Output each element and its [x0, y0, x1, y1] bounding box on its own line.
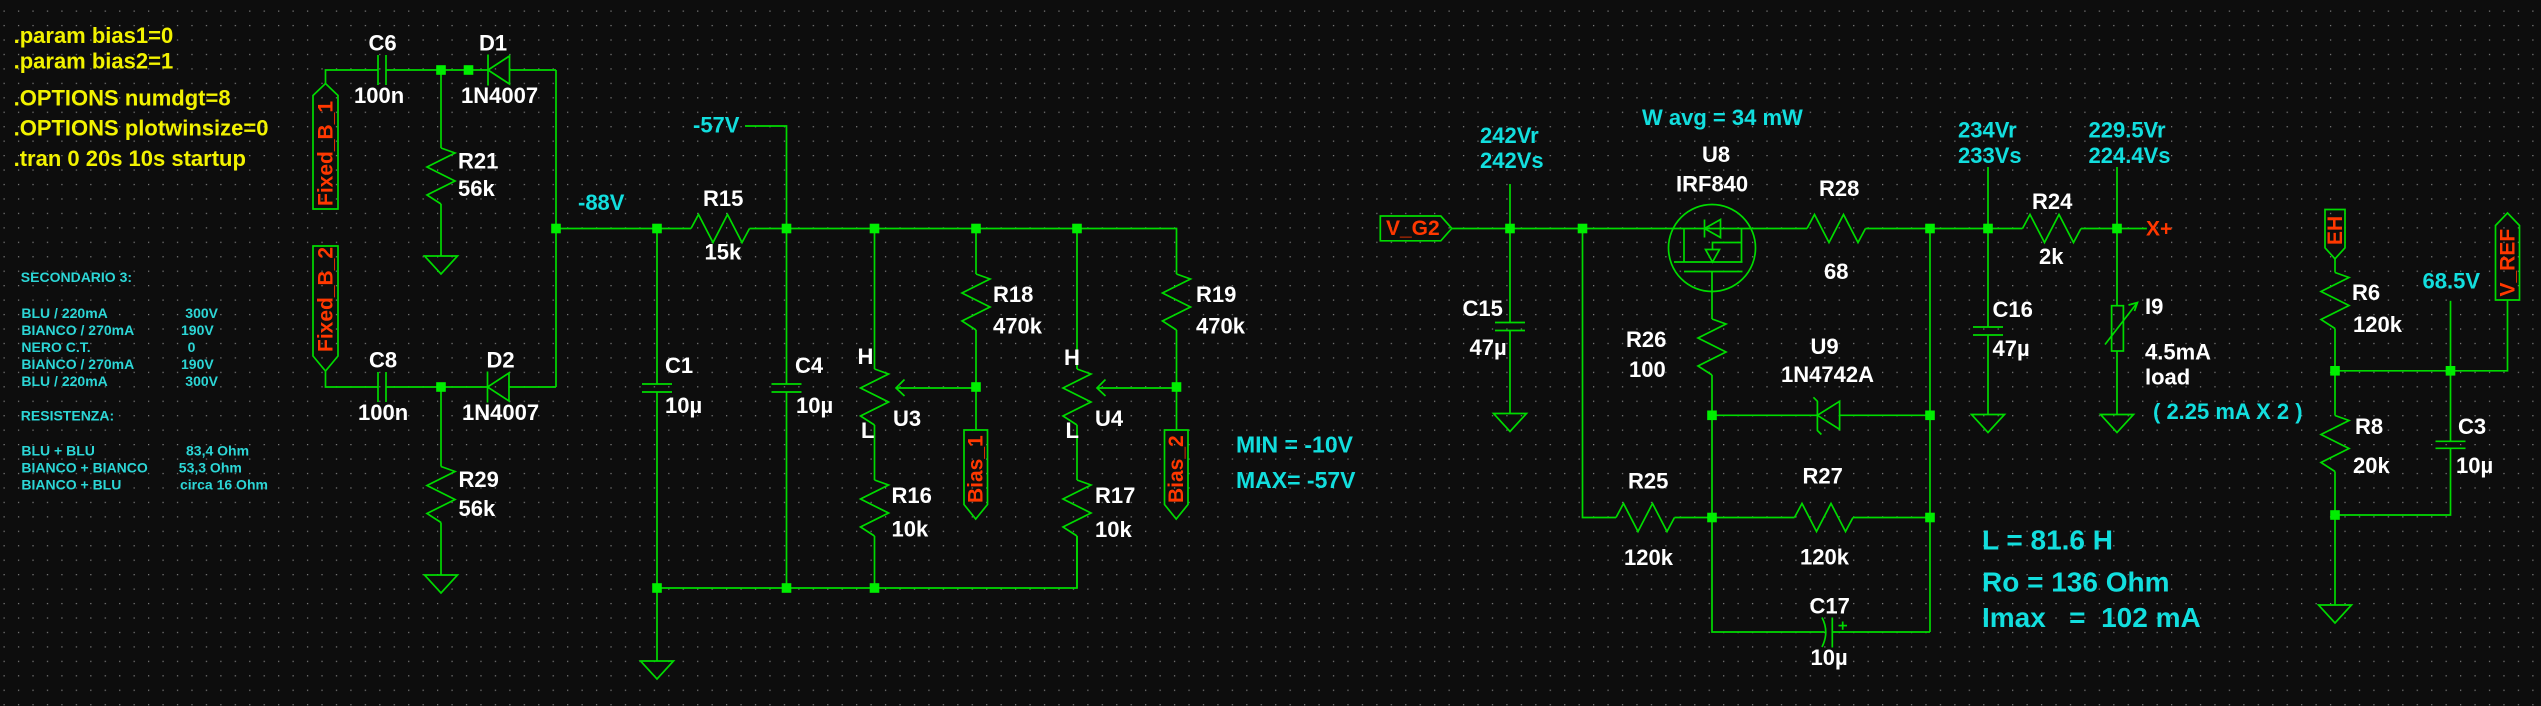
wire C17 right	[1832, 631, 1930, 633]
svg-text:100: 100	[1629, 357, 1666, 382]
svg-text:Fixed_B_1: Fixed_B_1	[315, 101, 338, 206]
resistor R6	[2321, 259, 2349, 371]
svg-text:68.5V: 68.5V	[2423, 269, 2481, 294]
svg-text:C16: C16	[1993, 297, 2033, 322]
ground R29	[425, 575, 458, 593]
wire EH node row	[2335, 300, 2508, 371]
potentiometer U3	[861, 229, 977, 426]
svg-text:4.5mA: 4.5mA	[2145, 340, 2211, 365]
node C1 top junction	[652, 224, 662, 234]
node C3 top junction	[2446, 366, 2456, 376]
svg-text:C1: C1	[665, 353, 693, 378]
svg-text:BIANCO + BLU: BIANCO + BLU	[21, 477, 121, 493]
svg-text:Ro = 136 Ohm: Ro = 136 Ohm	[1982, 567, 2170, 598]
svg-text:.OPTIONS numdgt=8: .OPTIONS numdgt=8	[14, 86, 231, 111]
wire C6 to D1	[386, 69, 488, 71]
capacitor C1	[642, 229, 672, 589]
svg-text:SECONDARIO 3:: SECONDARIO 3:	[21, 269, 132, 285]
svg-text:1N4742A: 1N4742A	[1781, 362, 1874, 387]
svg-text:( 2.25 mA X 2 ): ( 2.25 mA X 2 )	[2153, 399, 2303, 424]
wire C16 stub	[1987, 167, 1989, 327]
resistor R15	[691, 215, 750, 243]
svg-text:-88V: -88V	[578, 190, 625, 215]
svg-text:-57V: -57V	[693, 113, 740, 138]
svg-text:68: 68	[1824, 259, 1848, 284]
svg-text:NERO C.T.: NERO C.T.	[21, 339, 90, 355]
svg-text:BIANCO / 270mA: BIANCO / 270mA	[21, 356, 134, 372]
svg-text:load: load	[2145, 365, 2190, 390]
svg-text:W avg = 34 mW: W avg = 34 mW	[1642, 105, 1803, 130]
svg-text:56k: 56k	[458, 176, 495, 201]
svg-text:470k: 470k	[993, 313, 1043, 338]
svg-text:H: H	[858, 344, 874, 369]
svg-text:BIANCO + BIANCO: BIANCO + BIANCO	[21, 460, 148, 476]
capacitor C4	[772, 229, 802, 589]
svg-text:R25: R25	[1628, 469, 1668, 494]
svg-text:V_REF: V_REF	[2497, 229, 2520, 297]
svg-text:U3: U3	[893, 406, 921, 431]
svg-text:R29: R29	[459, 467, 499, 492]
svg-text:MAX= -57V: MAX= -57V	[1236, 467, 1356, 493]
svg-text:300V: 300V	[185, 373, 218, 389]
node R28 right junction	[1925, 224, 1935, 234]
node Bias_2 junction	[1172, 382, 1182, 392]
svg-text:D2: D2	[487, 348, 515, 373]
svg-text:R28: R28	[1819, 176, 1859, 201]
resistor R26	[1698, 319, 1726, 415]
ground R21	[425, 256, 458, 274]
wire Bias_1 drop	[975, 387, 977, 430]
net flag Fixed_B_1	[313, 84, 338, 210]
resistor R18	[962, 229, 990, 388]
node R27 left junction	[1707, 513, 1717, 523]
node C8-R29 junction	[436, 382, 446, 392]
wire R25 column	[1583, 229, 1617, 518]
svg-text:234Vr: 234Vr	[1958, 118, 2017, 143]
wire Fixed_B_1 to C6	[326, 70, 379, 84]
svg-text:10µ: 10µ	[2456, 453, 2493, 478]
resistor R19	[1163, 274, 1191, 387]
resistor R24	[2023, 215, 2147, 243]
svg-text:R26: R26	[1626, 327, 1666, 352]
node zener right junction	[1925, 411, 1935, 421]
svg-text:20k: 20k	[2353, 453, 2390, 478]
resistor R8	[2321, 371, 2349, 515]
wire U8 to R26	[1711, 272, 1713, 320]
node zener left junction	[1707, 411, 1717, 421]
svg-text:10µ: 10µ	[1811, 645, 1848, 670]
svg-text:U9: U9	[1811, 334, 1839, 359]
capacitor C8	[378, 372, 386, 402]
svg-text:L = 81.6 H: L = 81.6 H	[1982, 525, 2113, 556]
svg-text:BIANCO / 270mA: BIANCO / 270mA	[21, 322, 134, 338]
svg-text:C17: C17	[1810, 594, 1850, 619]
svg-text:C4: C4	[795, 353, 824, 378]
svg-text:56k: 56k	[459, 496, 496, 521]
svg-text:233Vs: 233Vs	[1958, 143, 2022, 168]
svg-text:U4: U4	[1095, 406, 1124, 431]
capacitor C15	[1495, 323, 1525, 414]
wire D2 to right vertical	[509, 386, 556, 388]
svg-text:R19: R19	[1196, 282, 1236, 307]
potentiometer U4	[1063, 229, 1177, 426]
svg-text:BLU / 220mA: BLU / 220mA	[21, 373, 107, 389]
wire zener row right	[1840, 414, 1930, 416]
svg-text:U8: U8	[1702, 142, 1730, 167]
svg-text:EH: EH	[2324, 216, 2347, 245]
resistor R27	[1712, 504, 1930, 532]
svg-text:Fixed_B_2: Fixed_B_2	[315, 247, 338, 352]
svg-text:Bias_2: Bias_2	[1165, 435, 1188, 503]
node R6-R8 junction	[2330, 366, 2340, 376]
node R25 column junction	[1578, 224, 1588, 234]
svg-text:100n: 100n	[354, 83, 404, 108]
ground C15	[1494, 414, 1527, 432]
svg-text:83,4 Ohm: 83,4 Ohm	[186, 443, 249, 459]
svg-text:242Vs: 242Vs	[1480, 148, 1544, 173]
svg-text:47µ: 47µ	[1470, 335, 1507, 360]
net flag V_REF	[2496, 213, 2520, 300]
node R18 top junction	[971, 224, 981, 234]
node C6-R21 junction	[436, 65, 446, 75]
svg-text:10µ: 10µ	[665, 393, 702, 418]
svg-text:300V: 300V	[185, 305, 218, 321]
node bottom bus U3 junction	[870, 583, 880, 593]
svg-text:.param bias1=0: .param bias1=0	[14, 23, 174, 48]
wire R15 to bus right	[750, 229, 1177, 275]
svg-text:47µ: 47µ	[1993, 336, 2030, 361]
svg-text:470k: 470k	[1196, 313, 1246, 338]
resistor R29	[427, 387, 455, 575]
svg-text:100n: 100n	[358, 400, 408, 425]
svg-text:0: 0	[188, 339, 196, 355]
wire Fixed_B_2 to C8	[326, 371, 379, 387]
svg-text:1N4007: 1N4007	[462, 400, 539, 425]
node C15 junction	[1505, 224, 1515, 234]
resistor R21	[427, 70, 455, 256]
svg-text:D1: D1	[479, 31, 507, 56]
wire D1 to right corner	[510, 69, 557, 71]
capacitor C16	[1973, 327, 2003, 415]
node R27 right junction	[1925, 513, 1935, 523]
svg-text:10µ: 10µ	[796, 393, 833, 418]
svg-text:.tran 0 20s 10s startup: .tran 0 20s 10s startup	[14, 146, 246, 171]
svg-text:RESISTENZA:: RESISTENZA:	[21, 408, 114, 424]
svg-text:circa 16 Ohm: circa 16 Ohm	[180, 477, 268, 493]
svg-text:MIN = -10V: MIN = -10V	[1236, 432, 1354, 458]
node X+ junction	[2112, 224, 2122, 234]
svg-text:.OPTIONS plotwinsize=0: .OPTIONS plotwinsize=0	[14, 116, 269, 141]
svg-text:IRF840: IRF840	[1676, 172, 1748, 197]
net flag EH	[2325, 210, 2345, 259]
resistor R28	[1807, 215, 2023, 243]
svg-text:120k: 120k	[2353, 312, 2403, 337]
capacitor C3	[2335, 371, 2466, 515]
svg-text:X+: X+	[2146, 218, 2172, 241]
mosfet U8 body	[1674, 220, 1743, 272]
wire X+ stub	[2116, 167, 2118, 229]
capacitor C17 polarized	[1822, 618, 1847, 648]
svg-text:Bias_1: Bias_1	[965, 435, 988, 503]
svg-text:R16: R16	[892, 483, 932, 508]
ground C16	[1972, 415, 2005, 433]
wire C8 to D2	[386, 386, 488, 388]
wire right column	[1929, 229, 1931, 633]
node D1 anode junction	[464, 65, 474, 75]
svg-text:R17: R17	[1095, 483, 1135, 508]
svg-text:190V: 190V	[181, 322, 214, 338]
diode D2	[488, 372, 510, 403]
svg-text:10k: 10k	[892, 517, 929, 542]
wire zener row left	[1712, 414, 1817, 416]
svg-text:R24: R24	[2032, 189, 2073, 214]
svg-text:BLU + BLU: BLU + BLU	[21, 443, 95, 459]
node U3 top junction	[870, 224, 880, 234]
wire C17 left	[1712, 518, 1825, 633]
svg-text:C6: C6	[369, 31, 397, 56]
node U4 top junction	[1072, 224, 1082, 234]
svg-text:224.4Vs: 224.4Vs	[2089, 143, 2171, 168]
wire 68.5V stub	[2450, 301, 2452, 371]
resistor R17	[1063, 425, 1091, 588]
net flag Fixed_B_2	[313, 246, 338, 371]
zener diode U9	[1813, 397, 1839, 434]
svg-text:1N4007: 1N4007	[461, 83, 538, 108]
net flag Bias_1	[964, 430, 988, 519]
svg-text:242Vr: 242Vr	[1480, 123, 1539, 148]
svg-text:C15: C15	[1463, 296, 1503, 321]
svg-text:120k: 120k	[1624, 545, 1674, 570]
svg-text:BLU / 220mA: BLU / 220mA	[21, 305, 107, 321]
svg-text:.param bias2=1: .param bias2=1	[14, 49, 174, 74]
wire bottom bus	[657, 536, 1077, 588]
svg-text:H: H	[1064, 345, 1080, 370]
svg-text:15k: 15k	[705, 240, 742, 265]
node bottom bus C1 junction	[652, 583, 662, 593]
svg-text:R27: R27	[1803, 464, 1843, 489]
ground bottom bus	[641, 588, 674, 679]
svg-text:10k: 10k	[1095, 517, 1132, 542]
svg-text:C8: C8	[369, 348, 397, 373]
node -88V left junction	[551, 224, 561, 234]
wire left vertical D1-D2	[555, 70, 557, 387]
wire mid column	[1711, 415, 1713, 517]
svg-text:I9: I9	[2145, 294, 2163, 319]
ground far right	[2319, 605, 2352, 623]
resistor R25	[1616, 504, 1712, 532]
svg-text:L: L	[861, 418, 874, 443]
wire to ground far right	[2334, 515, 2336, 605]
svg-text:R6: R6	[2352, 280, 2380, 305]
node C16 junction	[1983, 224, 1993, 234]
wire -88V bus	[556, 228, 691, 230]
svg-text:R15: R15	[703, 186, 743, 211]
svg-text:L: L	[1066, 418, 1079, 443]
svg-text:R18: R18	[993, 282, 1033, 307]
node Bias_1 junction	[971, 382, 981, 392]
svg-text:V_G2: V_G2	[1386, 217, 1440, 240]
diode D1	[488, 55, 510, 86]
svg-text:Imax = 102 mA: Imax = 102 mA	[1982, 602, 2201, 633]
net flag V_G2	[1380, 216, 1452, 241]
capacitor C6	[378, 55, 386, 85]
svg-text:53,3 Ohm: 53,3 Ohm	[179, 460, 242, 476]
svg-text:C3: C3	[2458, 414, 2486, 439]
wire C15 stub	[1509, 184, 1511, 323]
svg-text:2k: 2k	[2039, 244, 2064, 269]
current source I9	[2105, 229, 2138, 415]
svg-text:190V: 190V	[181, 356, 214, 372]
resistor R16	[861, 425, 889, 588]
ground I9	[2101, 415, 2134, 433]
svg-text:120k: 120k	[1800, 545, 1850, 570]
svg-text:229.5Vr: 229.5Vr	[2089, 118, 2167, 143]
node R8 bottom junction	[2330, 510, 2340, 520]
svg-text:R21: R21	[458, 149, 498, 174]
net flag Bias_2	[1165, 430, 1189, 519]
node -57V junction	[782, 224, 792, 234]
node bottom bus C4 junction	[782, 583, 792, 593]
wire V_G2 rail	[1452, 228, 1807, 230]
wire Bias_2 drop	[1176, 387, 1178, 430]
wire -57V stub	[745, 126, 787, 229]
svg-text:R8: R8	[2355, 414, 2383, 439]
mosfet U8 circle	[1669, 205, 1756, 292]
